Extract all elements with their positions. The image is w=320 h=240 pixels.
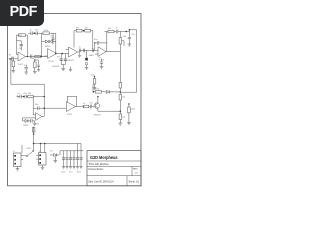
wire U3 out	[78, 50, 95, 52]
ground (C19)	[69, 167, 72, 169]
node dot C4a	[34, 32, 36, 34]
resistor R3 (U2 feedback top)	[43, 32, 56, 35]
wire U2 feedback loop	[42, 33, 56, 56]
capacitor C25 (U4 input)	[92, 49, 93, 53]
svg-text:47u: 47u	[69, 172, 72, 174]
capacitor C9 (right)	[128, 30, 131, 44]
capacitor C11 (mid, x100)	[100, 59, 103, 67]
wire top-rail drops	[74, 31, 93, 49]
title block h-line 1	[87, 160, 141, 162]
svg-text:47p: 47p	[19, 48, 23, 50]
capacitor C19 (filter)	[70, 151, 72, 167]
svg-text:220k: 220k	[44, 30, 48, 32]
svg-text:1.0: 1.0	[135, 173, 139, 175]
resistor R11 (after U6)	[83, 105, 90, 108]
svg-text:100k: 100k	[131, 109, 135, 111]
ground (under R14)	[119, 123, 123, 125]
resistor R10 (row2 series)	[28, 95, 44, 115]
wire U6 out	[76, 106, 85, 108]
svg-text:47n: 47n	[57, 57, 60, 59]
capacitor C24 (cluster)	[83, 49, 84, 53]
svg-text:TL072: TL072	[48, 61, 55, 63]
resistor R14 (right chain lower)	[119, 103, 122, 123]
svg-text:TITLE: G2D_Morpheus: TITLE: G2D_Morpheus	[89, 163, 110, 166]
svg-text:Date: June 06, 2004 18:24: Date: June 06, 2004 18:24	[89, 181, 115, 184]
ground (under C9)	[128, 44, 132, 46]
connector J1 (input jack)	[14, 153, 25, 167]
ground (under R9)	[93, 88, 97, 90]
resistor R7 (mid-left vertical)	[12, 59, 15, 71]
node dot F	[126, 31, 128, 33]
node dot N	[120, 91, 122, 93]
capacitor C1 (input)	[9, 57, 13, 61]
svg-text:47p: 47p	[94, 39, 98, 41]
capacitor C14 (U5 feedback)	[33, 106, 44, 110]
ground (under block)	[85, 65, 89, 70]
svg-text:100k: 100k	[18, 35, 22, 37]
capacitor C18 (filter)	[66, 151, 68, 167]
wire U5 out	[42, 108, 44, 116]
ground (under C26)	[37, 70, 40, 72]
wire U5 out long	[44, 107, 66, 109]
ground (C18)	[65, 167, 68, 169]
wire right bus down	[126, 30, 136, 92]
switch SW1	[25, 150, 34, 157]
capacitor C4b (top chain)	[36, 31, 43, 35]
svg-text:47n: 47n	[24, 93, 27, 95]
ground (C17)	[62, 167, 65, 169]
capacitor C16 (series)	[90, 105, 94, 109]
node dot B	[41, 56, 43, 58]
node dot J	[40, 143, 42, 145]
resistor R13 (right chain upper)	[119, 92, 122, 112]
wire U1A out	[26, 56, 48, 58]
capacitor C21 (filter)	[77, 151, 79, 167]
svg-text:100u: 100u	[61, 172, 65, 174]
capacitor C3 (series)	[31, 55, 32, 59]
ground (C20)	[72, 167, 75, 169]
resistor R5 (top rail)	[82, 29, 93, 32]
op-amp U2	[45, 49, 57, 59]
svg-text:1u: 1u	[99, 57, 101, 59]
capacitor C8 (top right series)	[117, 30, 127, 34]
capacitor C26 (beside R8)	[35, 60, 40, 70]
capacitor C15 (row2 lower)	[23, 118, 36, 123]
node dot A	[27, 56, 29, 58]
svg-text:1N4148: 1N4148	[52, 66, 60, 68]
PDF badge	[0, 0, 44, 26]
wire U2 out	[57, 53, 69, 55]
svg-text:GAIN: GAIN	[89, 54, 94, 57]
node dot D	[62, 53, 64, 55]
svg-text:10k: 10k	[122, 97, 125, 99]
resistor R15 (far right chain)	[128, 103, 131, 122]
capacitor C22 (filter)	[80, 151, 82, 167]
ground (under R15)	[127, 123, 131, 125]
node dot M	[33, 143, 35, 145]
ground (under C23)	[78, 52, 81, 57]
node dot G	[129, 29, 131, 31]
capacitor C10 (mid-left)	[25, 65, 28, 73]
capacitor C20 (filter)	[73, 151, 75, 167]
svg-text:10k: 10k	[91, 75, 94, 77]
wire cluster drop	[86, 50, 88, 57]
filled block (net label)	[85, 58, 88, 61]
resistor R9 (bias chain)	[93, 76, 96, 88]
svg-text:68p: 68p	[35, 104, 39, 106]
component value labels (tiny)	[9, 28, 135, 174]
ground (under C5/C6)	[61, 65, 65, 71]
svg-text:1u: 1u	[18, 93, 20, 95]
resistor R4 (top rail)	[74, 29, 82, 32]
wire U4 out	[106, 32, 120, 52]
svg-text:1u: 1u	[79, 46, 81, 48]
capacitor C7 (U4 feedback)	[94, 41, 107, 44]
svg-text:1u: 1u	[30, 30, 32, 32]
svg-text:4k7: 4k7	[108, 28, 112, 30]
capacitor C2 (feedback)	[20, 41, 24, 51]
node dot O	[43, 96, 45, 98]
ground (under R8)	[33, 72, 37, 74]
diode D2	[50, 40, 56, 43]
resistor R2 (series)	[35, 55, 41, 58]
svg-text:10k: 10k	[76, 28, 79, 30]
title block h-line 3	[87, 175, 141, 177]
resistor R12 (Q1 collector bias)	[93, 85, 105, 100]
potentiometer VR2	[119, 32, 124, 93]
ground (under R7)	[12, 71, 16, 73]
ground (under J1)	[16, 167, 20, 171]
svg-text:Sheet 1/1: Sheet 1/1	[129, 181, 140, 184]
op-amp U4	[94, 47, 106, 57]
diode D5 (polarity)	[50, 154, 59, 157]
ground (under C10)	[24, 72, 28, 74]
svg-text:1N914: 1N914	[23, 125, 28, 127]
svg-text:TL072: TL072	[99, 60, 106, 62]
svg-text:SW1: SW1	[27, 148, 32, 150]
wire feedback loop U1A	[17, 35, 28, 56]
svg-text:1k: 1k	[83, 103, 85, 105]
svg-text:50k: 50k	[123, 36, 126, 38]
svg-text:10k: 10k	[31, 58, 34, 60]
capacitor C17 (filter)	[63, 151, 65, 167]
node dot E	[83, 30, 85, 32]
capacitor C4 (top chain)	[28, 31, 36, 35]
svg-text:1u: 1u	[116, 28, 118, 30]
svg-text:TL072: TL072	[67, 114, 74, 116]
wire U6 feedback loop	[67, 96, 76, 106]
capacitor C4c (drop to U2 input)	[52, 33, 55, 44]
resistor R6 (top right)	[105, 30, 117, 33]
transistor Q1	[94, 100, 99, 112]
svg-text:10u: 10u	[89, 103, 92, 105]
svg-text:22n: 22n	[132, 34, 135, 36]
svg-text:G2D Morpheus: G2D Morpheus	[90, 155, 118, 161]
ground (under D5)	[54, 157, 58, 163]
wire U4 feedback loop	[94, 43, 96, 51]
ground (under J2)	[41, 165, 45, 169]
svg-text:33k: 33k	[28, 93, 31, 95]
wire emitter bus	[98, 110, 120, 112]
resistor R17 (pot lower leg)	[119, 83, 122, 89]
svg-text:J1: J1	[13, 151, 16, 153]
resistor R1 (feedback over U1A)	[17, 34, 28, 37]
svg-text:1N914: 1N914	[45, 46, 52, 48]
title block v-line REV	[131, 166, 133, 175]
ground (under C11)	[100, 67, 104, 69]
sheet border frame	[8, 14, 141, 186]
ground (C21)	[76, 167, 79, 169]
connector J2 (output jack)	[36, 153, 46, 166]
ground (row2 lower)	[33, 121, 37, 126]
node terminal (row2 input)	[17, 96, 18, 97]
node dot L	[33, 133, 35, 135]
resistor R16 (bypass feed)	[32, 128, 35, 133]
wire long route left	[11, 59, 44, 109]
capacitor C13 (row2 series)	[25, 95, 28, 99]
op-amp U6	[66, 102, 75, 112]
wire filter bus	[60, 151, 84, 155]
op-amp U5	[33, 113, 42, 121]
ground (C22)	[79, 167, 82, 169]
node dot C	[55, 53, 57, 55]
diode D3 (row2)	[23, 119, 31, 122]
diode D4 (right rail)	[104, 90, 120, 93]
capacitor C12 (row2 series)	[18, 95, 25, 99]
svg-text:Document Number:: Document Number:	[89, 168, 104, 171]
node dot I	[43, 107, 45, 109]
svg-text:4n7: 4n7	[51, 36, 55, 38]
svg-text:TL072: TL072	[69, 60, 76, 62]
op-amp U3	[66, 47, 78, 57]
resistor R8 (mid vertical)	[34, 59, 37, 71]
svg-text:2N3904: 2N3904	[94, 114, 102, 116]
title block outer box	[87, 151, 141, 186]
svg-text:D5: D5	[50, 151, 53, 153]
svg-text:10k: 10k	[122, 117, 125, 119]
svg-text:47n: 47n	[35, 30, 38, 32]
svg-text:10k: 10k	[85, 28, 88, 30]
svg-text:470k: 470k	[95, 89, 99, 91]
wire power feed	[22, 127, 81, 154]
svg-text:1u: 1u	[24, 65, 26, 67]
ground (right of C6)	[69, 67, 72, 72]
capacitor C6 (to ground)	[64, 54, 67, 65]
svg-text:1M: 1M	[11, 57, 14, 59]
transistor circle node	[85, 62, 88, 65]
title block v-line Sheet	[126, 176, 128, 186]
node dot H	[23, 96, 25, 98]
svg-text:TL072: TL072	[34, 124, 39, 126]
op-amp U1A	[10, 52, 26, 61]
capacitor C23 (cluster)	[80, 49, 81, 53]
title block h-line 2	[87, 165, 141, 167]
diode D1	[42, 40, 49, 43]
svg-text:100n: 100n	[77, 172, 81, 174]
node dot K	[44, 143, 46, 145]
capacitor C5 (to ground)	[60, 54, 63, 65]
svg-text:REV:: REV:	[133, 169, 138, 171]
wire right rail join	[120, 91, 136, 93]
